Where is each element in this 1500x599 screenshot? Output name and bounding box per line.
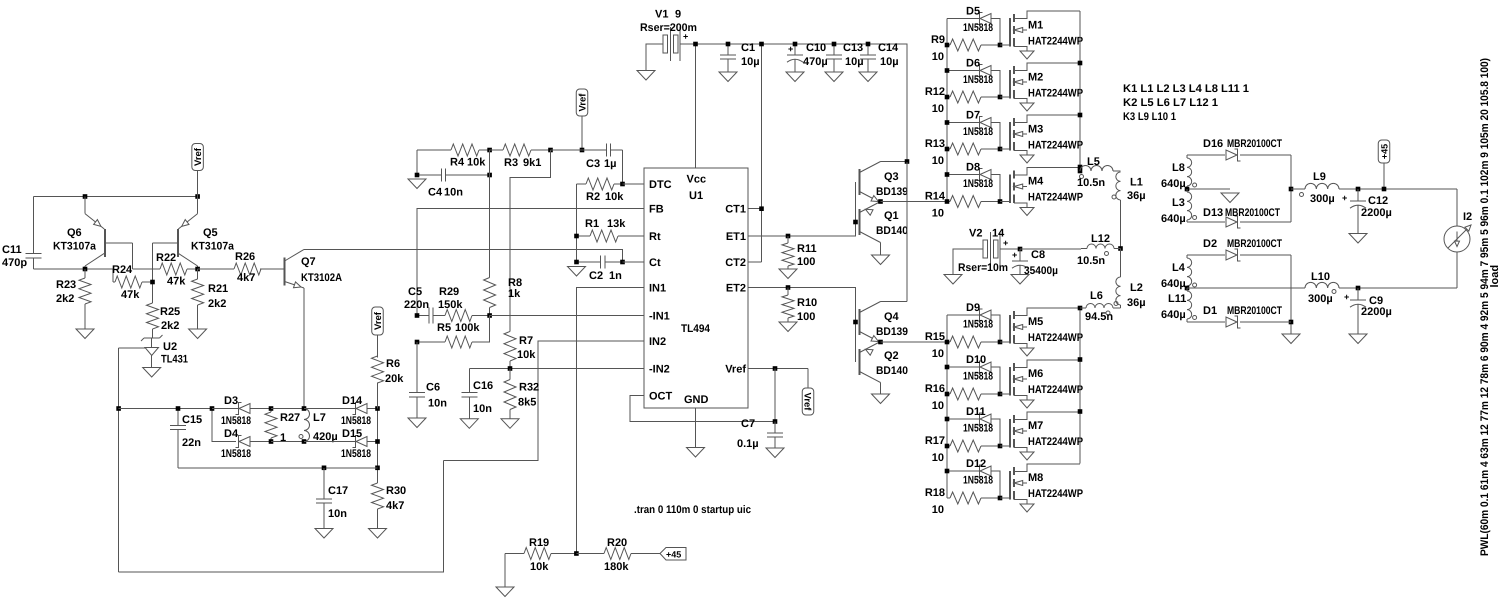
wire	[34, 196, 198, 198]
svg-text:C12: C12	[1368, 195, 1388, 207]
node -IN1	[415, 313, 492, 318]
ground	[944, 275, 962, 285]
svg-text:Q5: Q5	[203, 227, 218, 239]
svg-text:M3: M3	[1028, 124, 1043, 136]
svg-text:20k: 20k	[385, 373, 404, 385]
diode D13 MBR20100CT	[1203, 207, 1291, 228]
node rect2	[1289, 320, 1294, 325]
node R4-R3	[415, 148, 492, 178]
inductor L7	[299, 409, 338, 444]
svg-text:Q2: Q2	[884, 350, 899, 362]
node C2 right	[620, 260, 625, 265]
svg-text:47k: 47k	[167, 276, 186, 288]
svg-text:10: 10	[932, 400, 944, 412]
svg-text:KT3107a: KT3107a	[191, 241, 235, 253]
svg-text:FB: FB	[649, 204, 664, 216]
wire	[271, 441, 304, 443]
svg-text:R5: R5	[437, 322, 451, 334]
transistor Q7	[260, 249, 342, 288]
svg-text:R18: R18	[925, 487, 945, 499]
svg-text:R3: R3	[504, 157, 518, 169]
node Q1 base	[853, 220, 858, 225]
svg-text:Rt: Rt	[649, 231, 661, 243]
nmos M3 HAT2244WP	[1000, 115, 1083, 163]
wire R2-left rail	[576, 184, 578, 262]
voltage source V2	[953, 228, 1020, 275]
svg-text:CT2: CT2	[725, 257, 746, 269]
svg-text:BD140: BD140	[876, 365, 908, 377]
svg-text:C14: C14	[878, 42, 899, 54]
junction	[945, 68, 950, 73]
svg-text:KT3102A: KT3102A	[301, 272, 342, 284]
current source I2 load	[1444, 189, 1472, 288]
node C13	[832, 42, 837, 47]
node C17	[322, 466, 327, 471]
svg-text:+: +	[1342, 193, 1347, 203]
svg-text:10: 10	[932, 103, 944, 115]
node R1 left	[574, 234, 579, 239]
svg-text:1N5818: 1N5818	[341, 448, 371, 460]
svg-text:2200µ: 2200µ	[1361, 306, 1392, 318]
ground	[408, 418, 426, 428]
text K coupling	[1123, 83, 1249, 123]
svg-text:C3: C3	[586, 158, 600, 170]
wire	[622, 150, 624, 184]
node Q4-Q2 out	[878, 340, 883, 345]
diode D1 MBR20100CT	[1203, 305, 1291, 328]
svg-text:M8: M8	[1028, 472, 1043, 484]
svg-text:470µ: 470µ	[803, 56, 828, 68]
svg-text:U1: U1	[689, 190, 703, 202]
svg-text:ET2: ET2	[726, 283, 746, 295]
svg-text:R32: R32	[519, 382, 539, 394]
svg-text:PWL(60m 0.1 61m 4 63m 12 77m 1: PWL(60m 0.1 61m 4 63m 12 77m 12 78m 6 90…	[1479, 58, 1491, 556]
svg-text:L2: L2	[1130, 282, 1143, 294]
ground	[315, 529, 333, 539]
resistor R23	[56, 269, 91, 329]
ground	[872, 394, 890, 404]
ground	[76, 329, 94, 339]
svg-text:Vref: Vref	[802, 393, 813, 412]
svg-text:V1: V1	[655, 9, 668, 21]
capacitor C15	[170, 409, 202, 468]
svg-text:-IN2: -IN2	[649, 364, 670, 376]
junction	[945, 147, 1003, 152]
svg-text:M2: M2	[1028, 72, 1043, 84]
capacitor C2	[577, 256, 623, 283]
wire	[1114, 249, 1121, 278]
svg-text:R15: R15	[925, 331, 945, 343]
ground	[825, 72, 843, 82]
wire drain rail 1	[1079, 11, 1081, 171]
svg-text:+: +	[1012, 250, 1017, 260]
junction	[998, 444, 1003, 449]
svg-text:D1: D1	[1203, 305, 1217, 317]
wire CT rail	[761, 44, 763, 262]
inductor L12	[1077, 233, 1114, 267]
junction	[945, 444, 950, 449]
svg-text:10: 10	[932, 51, 944, 63]
svg-text:HAT2244WP: HAT2244WP	[1028, 36, 1083, 48]
resistor R2	[577, 178, 625, 203]
svg-text:MBR20100CT: MBR20100CT	[1227, 305, 1282, 317]
svg-text:MBR20100CT: MBR20100CT	[1227, 138, 1282, 150]
wire center tap 2	[1187, 287, 1305, 289]
node R5 left	[415, 340, 420, 345]
capacitor C13	[826, 42, 864, 72]
ground	[1011, 275, 1029, 285]
capacitor C5	[404, 286, 443, 324]
svg-text:D11: D11	[966, 406, 986, 418]
svg-text:Vref: Vref	[373, 311, 384, 330]
svg-text:1: 1	[280, 432, 286, 444]
ground	[1282, 334, 1300, 344]
svg-text:R14: R14	[925, 191, 946, 203]
inductor L4	[1161, 255, 1197, 290]
wire Rt	[628, 235, 644, 237]
node R27 bottom	[269, 439, 274, 444]
transistor Q2 BD140	[860, 342, 881, 395]
ground	[189, 329, 207, 339]
wire bus	[119, 408, 212, 410]
svg-text:10: 10	[932, 208, 944, 220]
svg-text:R23: R23	[56, 279, 76, 291]
resistor R32	[504, 369, 539, 419]
svg-text:D8: D8	[966, 162, 980, 174]
resistor R12	[925, 86, 1000, 115]
node ET1-R11	[786, 234, 791, 239]
svg-text:R29: R29	[439, 286, 459, 298]
svg-text:300µ: 300µ	[1308, 293, 1333, 305]
inductor L3	[1161, 189, 1197, 225]
node Q3 collector	[905, 159, 910, 164]
svg-text:10n: 10n	[428, 398, 447, 410]
svg-text:L8: L8	[1172, 162, 1185, 174]
svg-text:1n: 1n	[609, 270, 622, 282]
node CT sec2	[1185, 286, 1190, 291]
svg-text:1N5818: 1N5818	[963, 423, 993, 435]
nmos M8 HAT2244WP	[1000, 464, 1083, 512]
net flag Vref	[576, 89, 588, 150]
svg-text:+45: +45	[1380, 144, 1390, 159]
svg-text:M1: M1	[1028, 20, 1043, 32]
wire out1b	[1339, 188, 1457, 190]
resistor R1	[577, 218, 629, 242]
svg-text:R13: R13	[925, 138, 945, 150]
node C8	[1018, 247, 1023, 252]
svg-text:Vcc: Vcc	[687, 174, 707, 186]
net flag Vref	[192, 144, 204, 197]
ground	[460, 419, 478, 429]
svg-text:R2: R2	[586, 191, 600, 203]
svg-text:10.5n: 10.5n	[1077, 255, 1105, 267]
svg-text:180k: 180k	[604, 561, 629, 573]
svg-text:-IN1: -IN1	[649, 311, 670, 323]
svg-text:10k: 10k	[605, 191, 624, 203]
svg-text:OCT: OCT	[649, 391, 673, 403]
diode D15	[341, 428, 378, 460]
wire	[304, 408, 356, 410]
svg-text:1N5818: 1N5818	[221, 448, 251, 460]
node L7 top	[302, 406, 307, 411]
wire	[1187, 321, 1225, 323]
svg-text:M4: M4	[1028, 176, 1044, 188]
wire out1	[1291, 188, 1305, 190]
svg-text:Vref: Vref	[578, 93, 589, 112]
junction	[945, 417, 950, 422]
wire	[1020, 248, 1081, 250]
capacitor C17	[316, 468, 348, 529]
wire IN1	[577, 288, 645, 554]
node DTC	[620, 182, 625, 187]
svg-text:IN2: IN2	[649, 336, 666, 348]
svg-text:L12: L12	[1091, 233, 1110, 245]
wire	[1113, 170, 1121, 172]
node Vcc	[693, 42, 698, 47]
shunt regulator U2 TL431	[141, 335, 188, 368]
svg-text:10µ: 10µ	[845, 56, 864, 68]
ground	[369, 529, 387, 539]
node branch	[210, 406, 215, 411]
svg-text:Vref: Vref	[193, 147, 204, 166]
svg-text:4k7: 4k7	[237, 272, 255, 284]
ground	[687, 448, 705, 458]
svg-text:10: 10	[932, 348, 944, 360]
wire right rail	[377, 383, 379, 484]
svg-text:.tran 0 110m 0 startup uic: .tran 0 110m 0 startup uic	[634, 504, 751, 516]
resistor R9	[931, 34, 1000, 63]
node Q4 base	[853, 320, 858, 325]
svg-text:10.5n: 10.5n	[1077, 177, 1105, 189]
svg-text:R16: R16	[925, 383, 945, 395]
resistor R29	[438, 286, 490, 322]
wire	[152, 243, 154, 303]
wire drain rail 2	[1079, 308, 1081, 464]
net flag Vref	[372, 307, 384, 358]
svg-text:94.5n: 94.5n	[1085, 311, 1113, 323]
svg-text:10: 10	[932, 452, 944, 464]
svg-text:+: +	[1003, 238, 1008, 248]
node +45	[1382, 187, 1387, 192]
junction	[945, 392, 950, 397]
svg-text:Vref: Vref	[725, 364, 746, 376]
transistor Q6	[53, 197, 133, 270]
inductor L2	[1114, 277, 1146, 309]
transistor Q1 BD140	[860, 202, 881, 256]
svg-text:D4: D4	[224, 428, 239, 440]
wire R4 row	[416, 150, 418, 175]
wire Q7-emitter	[303, 288, 305, 409]
svg-text:Q7: Q7	[301, 256, 316, 268]
text PWL definition	[1479, 58, 1491, 556]
diode D10	[947, 354, 1000, 394]
svg-text:D13: D13	[1203, 207, 1223, 219]
svg-text:HAT2244WP: HAT2244WP	[1028, 192, 1083, 204]
svg-text:R24: R24	[112, 264, 133, 276]
resistor R26	[198, 251, 284, 284]
IC U1 TL494 body	[644, 168, 748, 408]
svg-text:10: 10	[932, 155, 944, 167]
wire	[551, 149, 583, 151]
svg-text:1N5818: 1N5818	[963, 475, 993, 487]
svg-text:Q1: Q1	[884, 210, 899, 222]
junction	[998, 496, 1003, 501]
svg-text:C5: C5	[408, 286, 422, 298]
svg-text:CT1: CT1	[725, 204, 746, 216]
node -IN2 R7	[508, 366, 513, 371]
wire -IN2	[469, 368, 644, 370]
svg-text:470p: 470p	[2, 257, 27, 269]
wire ET2	[748, 288, 856, 363]
node CT1	[759, 206, 764, 211]
svg-text:1N5818: 1N5818	[963, 319, 993, 331]
ground	[1221, 193, 1239, 203]
transistor Q3 BD139	[860, 162, 908, 203]
capacitor C8	[1012, 249, 1058, 277]
svg-text:R27: R27	[280, 412, 300, 424]
node bottom-rail	[375, 466, 380, 471]
node R27 top	[269, 406, 274, 411]
svg-text:10µ: 10µ	[880, 56, 899, 68]
svg-text:L6: L6	[1090, 290, 1103, 302]
wire	[1290, 255, 1292, 334]
svg-text:ET1: ET1	[726, 231, 746, 243]
svg-text:MBR20100CT: MBR20100CT	[1227, 238, 1282, 250]
svg-text:C1: C1	[741, 42, 755, 54]
svg-text:Rser=10m: Rser=10m	[958, 262, 1008, 274]
capacitor C7	[737, 418, 783, 450]
svg-text:+: +	[1344, 292, 1349, 302]
wire branch	[212, 409, 236, 442]
svg-text:M7: M7	[1028, 420, 1043, 432]
svg-text:9k1: 9k1	[523, 157, 541, 169]
ground	[719, 72, 737, 82]
svg-text:D5: D5	[966, 6, 980, 18]
wire GND pin	[695, 408, 697, 448]
resistor R25	[147, 303, 181, 338]
wire gate-drive rail 1	[946, 19, 948, 202]
svg-text:R12: R12	[925, 86, 945, 98]
resistor R15	[925, 331, 1000, 360]
resistor R13	[925, 138, 1000, 167]
svg-text:Ct: Ct	[649, 257, 661, 269]
node CT sec1	[1185, 187, 1190, 192]
svg-text:100: 100	[797, 311, 815, 323]
svg-text:Q3: Q3	[884, 171, 899, 183]
nmos M2 HAT2244WP	[1000, 63, 1083, 111]
inductor L9	[1300, 171, 1340, 205]
svg-text:R30: R30	[386, 485, 406, 497]
transistor Q5	[153, 197, 235, 270]
svg-text:4k7: 4k7	[386, 500, 404, 512]
resistor R7	[504, 331, 536, 368]
svg-text:HAT2244WP: HAT2244WP	[1028, 332, 1083, 344]
wire CT1	[748, 208, 762, 210]
svg-text:HAT2244WP: HAT2244WP	[1028, 436, 1083, 448]
wire driver2 out	[881, 341, 948, 343]
svg-text:C8: C8	[1031, 249, 1045, 261]
wire IN2	[444, 341, 645, 461]
svg-text:1N5818: 1N5818	[963, 22, 993, 34]
junction	[945, 172, 950, 177]
svg-text:L9: L9	[1313, 171, 1326, 183]
svg-text:2200µ: 2200µ	[1361, 207, 1392, 219]
nmos M4 HAT2244WP	[1000, 168, 1083, 216]
ground	[568, 267, 586, 277]
svg-text:KT3107a: KT3107a	[53, 241, 97, 253]
svg-text:C11: C11	[2, 244, 22, 256]
svg-text:+: +	[683, 32, 688, 42]
svg-text:M5: M5	[1028, 316, 1043, 328]
svg-text:300µ: 300µ	[1310, 193, 1335, 205]
svg-text:+: +	[788, 44, 793, 54]
wire DTC	[623, 183, 645, 185]
svg-text:10: 10	[932, 504, 944, 516]
diode D14	[341, 395, 378, 427]
svg-text:D9: D9	[966, 302, 980, 314]
wire driver1 out	[881, 201, 948, 203]
junction	[998, 392, 1003, 397]
capacitor C14	[860, 42, 899, 72]
node C9	[1356, 286, 1361, 291]
ground	[143, 368, 161, 378]
wire center tap 1	[1187, 188, 1230, 190]
wire	[1120, 200, 1122, 249]
svg-text:640µ: 640µ	[1161, 278, 1186, 290]
wire	[271, 408, 304, 410]
node C1	[726, 42, 731, 47]
svg-text:L1: L1	[1130, 177, 1143, 189]
svg-text:L10: L10	[1311, 271, 1330, 283]
diode D5	[947, 6, 1000, 46]
svg-text:36µ: 36µ	[1127, 190, 1146, 202]
wire OCT	[630, 396, 775, 422]
inductor L11	[1161, 288, 1197, 322]
svg-text:Q4: Q4	[884, 311, 900, 323]
svg-text:10µ: 10µ	[741, 56, 760, 68]
svg-text:1N5818: 1N5818	[963, 126, 993, 138]
svg-text:C7: C7	[741, 418, 755, 430]
svg-text:BD139: BD139	[876, 326, 908, 338]
svg-text:D2: D2	[1203, 238, 1217, 250]
node Q3-Q1 out	[878, 199, 883, 204]
wire	[119, 347, 145, 349]
net flag +45	[1378, 140, 1390, 189]
diode D7	[947, 110, 1000, 150]
wire	[510, 150, 551, 331]
junction	[998, 340, 1003, 345]
ground	[408, 179, 426, 189]
svg-text:8k5: 8k5	[518, 397, 536, 409]
svg-text:10n: 10n	[444, 187, 463, 199]
svg-text:D16: D16	[1203, 138, 1223, 150]
junction	[945, 199, 1003, 204]
capacitor C11	[2, 197, 42, 270]
svg-text:L7: L7	[313, 412, 326, 424]
svg-text:C10: C10	[806, 42, 826, 54]
diode D9	[947, 302, 1000, 342]
node C12	[1356, 187, 1361, 192]
svg-text:Rser=200m: Rser=200m	[640, 22, 697, 34]
svg-text:1N5818: 1N5818	[963, 178, 993, 190]
svg-text:C17: C17	[328, 485, 348, 497]
wire top rail	[696, 44, 908, 162]
svg-text:D15: D15	[342, 428, 362, 440]
svg-text:100: 100	[797, 256, 815, 268]
svg-text:L3: L3	[1172, 197, 1185, 209]
svg-text:DTC: DTC	[649, 179, 672, 191]
wire Vcc	[695, 44, 697, 168]
